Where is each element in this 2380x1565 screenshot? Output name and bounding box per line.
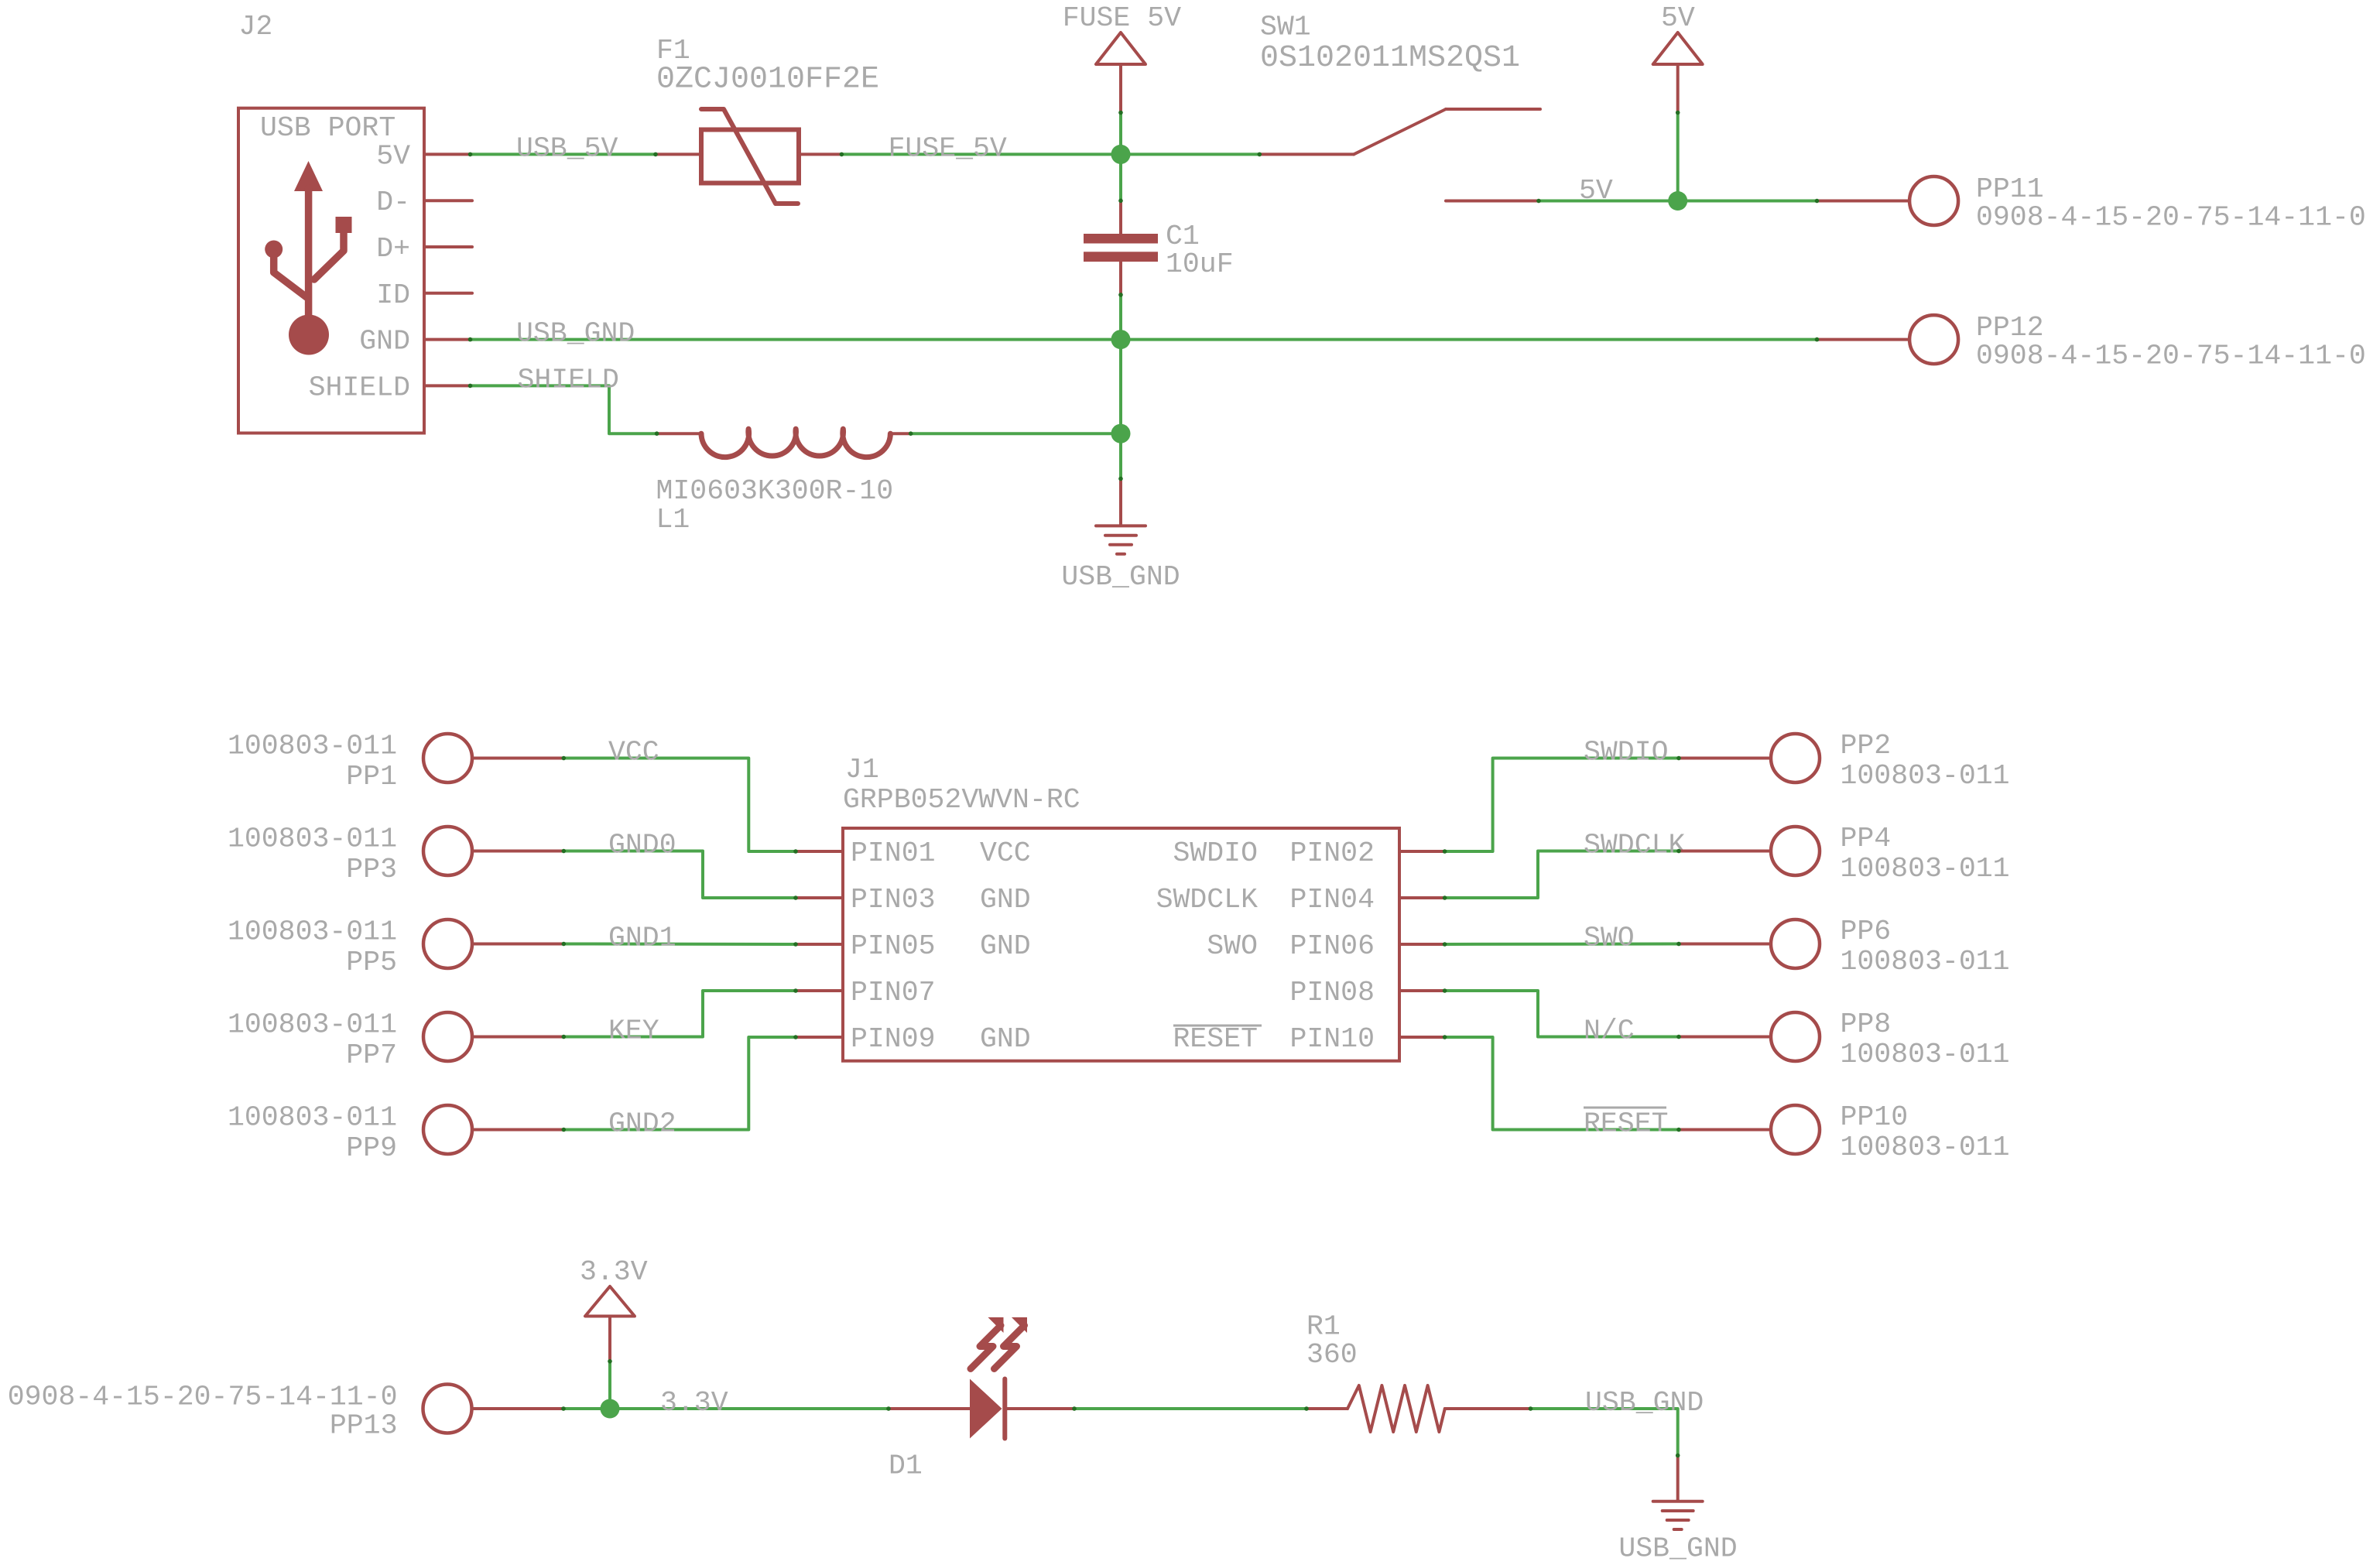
svg-text:SWO: SWO bbox=[1584, 923, 1635, 954]
svg-text:VCC: VCC bbox=[608, 737, 659, 769]
svg-text:USB_GND: USB_GND bbox=[1618, 1533, 1737, 1565]
svg-text:J1: J1 bbox=[845, 754, 879, 786]
svg-text:100803-011: 100803-011 bbox=[228, 731, 397, 762]
svg-text:0908-4-15-20-75-14-11-0: 0908-4-15-20-75-14-11-0 bbox=[8, 1382, 398, 1413]
svg-text:PIN09: PIN09 bbox=[851, 1023, 936, 1055]
svg-text:D+: D+ bbox=[376, 233, 410, 265]
svg-text:SWDCLK: SWDCLK bbox=[1584, 830, 1686, 861]
svg-text:100803-011: 100803-011 bbox=[228, 824, 397, 855]
svg-text:0908-4-15-20-75-14-11-0: 0908-4-15-20-75-14-11-0 bbox=[1976, 202, 2366, 234]
svg-text:J2: J2 bbox=[239, 11, 273, 43]
svg-text:USB PORT: USB PORT bbox=[260, 112, 396, 144]
svg-text:PP4: PP4 bbox=[1841, 823, 1892, 854]
svg-text:PP2: PP2 bbox=[1841, 730, 1892, 762]
svg-text:PP3: PP3 bbox=[346, 854, 397, 885]
svg-text:PIN07: PIN07 bbox=[851, 977, 936, 1009]
svg-text:GND: GND bbox=[980, 884, 1031, 916]
svg-text:GND: GND bbox=[980, 1023, 1031, 1055]
svg-text:PP11: PP11 bbox=[1976, 173, 2044, 205]
svg-text:0S102011MS2QS1: 0S102011MS2QS1 bbox=[1260, 41, 1520, 76]
svg-text:FUSE 5V: FUSE 5V bbox=[1063, 2, 1181, 34]
svg-text:PP7: PP7 bbox=[346, 1039, 397, 1071]
svg-text:100803-011: 100803-011 bbox=[1841, 1039, 2010, 1070]
svg-text:100803-011: 100803-011 bbox=[1841, 1132, 2010, 1163]
svg-text:PP8: PP8 bbox=[1841, 1009, 1892, 1040]
svg-text:FUSE_5V: FUSE_5V bbox=[889, 132, 1007, 164]
svg-text:GND0: GND0 bbox=[608, 830, 676, 861]
svg-text:L1: L1 bbox=[656, 504, 690, 536]
svg-text:USB_GND: USB_GND bbox=[516, 318, 635, 350]
svg-text:D-: D- bbox=[376, 187, 410, 218]
svg-text:PIN10: PIN10 bbox=[1289, 1023, 1375, 1055]
svg-text:PIN02: PIN02 bbox=[1289, 837, 1375, 869]
svg-text:GND2: GND2 bbox=[608, 1108, 676, 1140]
svg-text:D1: D1 bbox=[889, 1450, 923, 1482]
svg-text:MI0603K300R-10: MI0603K300R-10 bbox=[656, 475, 894, 507]
svg-text:360: 360 bbox=[1306, 1339, 1358, 1371]
svg-text:0ZCJ0010FF2E: 0ZCJ0010FF2E bbox=[656, 63, 879, 98]
svg-text:SWDIO: SWDIO bbox=[1584, 737, 1669, 769]
svg-text:ID: ID bbox=[376, 279, 410, 311]
svg-text:100803-011: 100803-011 bbox=[228, 1009, 397, 1041]
svg-text:100803-011: 100803-011 bbox=[1841, 946, 2010, 978]
svg-text:PIN08: PIN08 bbox=[1289, 977, 1375, 1009]
svg-text:PP13: PP13 bbox=[330, 1410, 398, 1442]
svg-text:100803-011: 100803-011 bbox=[1841, 853, 2010, 885]
svg-text:USB_5V: USB_5V bbox=[516, 132, 618, 164]
svg-text:KEY: KEY bbox=[608, 1015, 659, 1047]
svg-text:VCC: VCC bbox=[980, 837, 1031, 869]
svg-text:PP6: PP6 bbox=[1841, 916, 1892, 947]
svg-text:N/C: N/C bbox=[1584, 1015, 1635, 1047]
svg-text:SWDCLK: SWDCLK bbox=[1156, 884, 1258, 916]
svg-text:SHIELD: SHIELD bbox=[309, 372, 410, 403]
svg-text:3.3V: 3.3V bbox=[660, 1387, 728, 1419]
svg-text:100803-011: 100803-011 bbox=[228, 1102, 397, 1134]
svg-text:3.3V: 3.3V bbox=[580, 1256, 648, 1288]
svg-text:10uF: 10uF bbox=[1166, 248, 1234, 280]
svg-text:USB_GND: USB_GND bbox=[1585, 1387, 1704, 1419]
svg-text:PIN01: PIN01 bbox=[851, 837, 936, 869]
svg-text:PP1: PP1 bbox=[346, 761, 397, 793]
svg-text:PP9: PP9 bbox=[346, 1132, 397, 1164]
svg-text:R1: R1 bbox=[1306, 1310, 1341, 1342]
svg-text:SWO: SWO bbox=[1207, 930, 1258, 962]
svg-text:GND1: GND1 bbox=[608, 923, 676, 954]
svg-text:5V: 5V bbox=[376, 140, 410, 172]
svg-text:GND: GND bbox=[980, 930, 1031, 962]
svg-text:5V: 5V bbox=[1579, 175, 1613, 207]
svg-text:5V: 5V bbox=[1661, 2, 1695, 34]
svg-text:PP5: PP5 bbox=[346, 947, 397, 978]
svg-text:PIN05: PIN05 bbox=[851, 930, 936, 962]
svg-text:SWDIO: SWDIO bbox=[1173, 837, 1258, 869]
svg-text:PP12: PP12 bbox=[1976, 312, 2044, 344]
svg-text:USB_GND: USB_GND bbox=[1061, 561, 1180, 593]
svg-text:PIN04: PIN04 bbox=[1289, 884, 1375, 916]
svg-text:RESET: RESET bbox=[1584, 1108, 1669, 1140]
svg-text:RESET: RESET bbox=[1173, 1023, 1258, 1055]
svg-text:C1: C1 bbox=[1166, 221, 1200, 252]
svg-text:100803-011: 100803-011 bbox=[1841, 760, 2010, 792]
svg-text:PP10: PP10 bbox=[1841, 1101, 1909, 1133]
svg-text:GND: GND bbox=[359, 326, 410, 358]
svg-text:PIN06: PIN06 bbox=[1289, 930, 1375, 962]
svg-text:GRPB052VWVN-RC: GRPB052VWVN-RC bbox=[843, 784, 1080, 816]
svg-text:SHIELD: SHIELD bbox=[518, 364, 619, 396]
svg-text:SW1: SW1 bbox=[1260, 12, 1311, 43]
svg-text:0908-4-15-20-75-14-11-0: 0908-4-15-20-75-14-11-0 bbox=[1976, 341, 2366, 372]
svg-text:PIN03: PIN03 bbox=[851, 884, 936, 916]
svg-text:100803-011: 100803-011 bbox=[228, 916, 397, 948]
